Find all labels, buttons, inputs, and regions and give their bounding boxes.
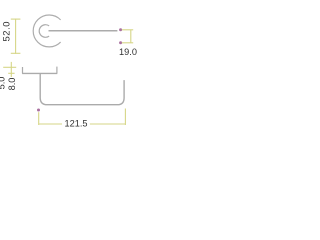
dimension 52.0 top tick bbox=[11, 18, 21, 20]
dimension 121.5 left extension line bbox=[38, 112, 40, 125]
node: grip bottom point (magenta) bbox=[119, 41, 122, 44]
svg-text:121.5: 121.5 bbox=[65, 119, 88, 129]
front view: lever boss inner arc bbox=[39, 25, 49, 38]
node: grip top point (magenta) bbox=[119, 28, 122, 31]
dimension 121.5 line left segment bbox=[39, 123, 62, 125]
front view: rose outer arc bbox=[33, 15, 60, 47]
dimension 19.0 top leader bbox=[122, 29, 133, 31]
svg-text:52.0: 52.0 bbox=[0, 21, 11, 42]
dimension 121.5 right extension line bbox=[124, 109, 126, 126]
dimension 121.5 line right segment bbox=[90, 123, 126, 125]
dimension 52.0 vertical line bbox=[15, 19, 17, 54]
plan view: rose right end tick bbox=[56, 67, 58, 74]
plan view: rose left end tick bbox=[22, 67, 24, 73]
svg-text:5.0: 5.0 bbox=[0, 77, 7, 90]
svg-text:8.0: 8.0 bbox=[7, 78, 17, 91]
dimension 8.0 vertical line bbox=[10, 62, 12, 77]
dimension 8.0 bottom tick bbox=[8, 72, 14, 74]
svg-text:19.0: 19.0 bbox=[119, 47, 137, 57]
plan view: rose edge line bbox=[22, 72, 57, 74]
dimension 19.0 vertical line bbox=[130, 30, 132, 43]
dimension 19.0 bottom leader bbox=[122, 42, 133, 44]
front view: grip bar line bbox=[49, 30, 118, 32]
dimension 52.0 bottom tick bbox=[11, 52, 21, 54]
dimension 8.0 top tick bbox=[3, 66, 16, 68]
plan view: lever neck and grip outline bbox=[40, 74, 124, 105]
node: grip start point (magenta) bbox=[37, 109, 40, 112]
